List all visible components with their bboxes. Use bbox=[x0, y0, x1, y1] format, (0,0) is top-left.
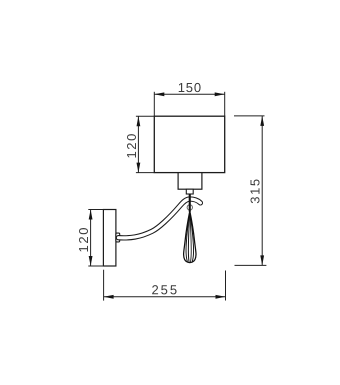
extension line top bbox=[234, 115, 265, 117]
hanger pin bbox=[189, 194, 191, 212]
dimension line bbox=[90, 210, 92, 267]
arrow 120 shade bottom bbox=[137, 163, 141, 173]
extension line left bbox=[103, 270, 105, 301]
dimension 150 (shade width) bbox=[154, 92, 224, 116]
arrow 315 top bbox=[260, 116, 264, 126]
svg-text:150: 150 bbox=[178, 80, 202, 95]
dimension 120 (wall plate height) bbox=[88, 210, 103, 267]
socket box bbox=[178, 173, 202, 190]
dimension 315 (overall height) bbox=[234, 116, 266, 266]
lampshade bbox=[154, 116, 224, 172]
extension line bottom bbox=[136, 172, 154, 174]
dimension line bbox=[261, 116, 263, 266]
curved arm bbox=[119, 199, 201, 238]
svg-text:120: 120 bbox=[124, 132, 139, 159]
crystal drop bbox=[184, 211, 196, 263]
extension line right bbox=[224, 92, 226, 116]
arrow 150 right bbox=[215, 92, 225, 96]
wall plate bbox=[103, 210, 116, 267]
extension line top bbox=[88, 209, 103, 211]
arrow 120 shade top bbox=[137, 116, 141, 126]
arrow 315 bottom bbox=[260, 255, 264, 265]
lamp neck bbox=[186, 189, 193, 194]
extension line bottom bbox=[88, 265, 103, 267]
extension line bottom bbox=[235, 264, 267, 266]
arrow 120 plate bottom bbox=[89, 256, 93, 266]
arm connector bbox=[116, 233, 120, 242]
hanger ring bbox=[187, 205, 192, 210]
arrow 255 right bbox=[216, 295, 226, 299]
svg-text:255: 255 bbox=[151, 282, 179, 297]
dimension 255 (overall width) bbox=[104, 270, 226, 301]
arrow 255 left bbox=[104, 295, 114, 299]
arrow 150 left bbox=[154, 92, 164, 96]
dimension 120 (shade height) bbox=[136, 116, 154, 172]
svg-text:315: 315 bbox=[248, 177, 263, 204]
extension line right bbox=[225, 271, 227, 301]
extension line left bbox=[153, 92, 155, 116]
dimension line bbox=[137, 116, 139, 172]
dimension line bbox=[104, 296, 226, 298]
extension line top bbox=[136, 115, 154, 117]
arrow 120 plate top bbox=[89, 210, 93, 220]
dimension line bbox=[154, 93, 224, 95]
svg-text:120: 120 bbox=[76, 226, 91, 253]
